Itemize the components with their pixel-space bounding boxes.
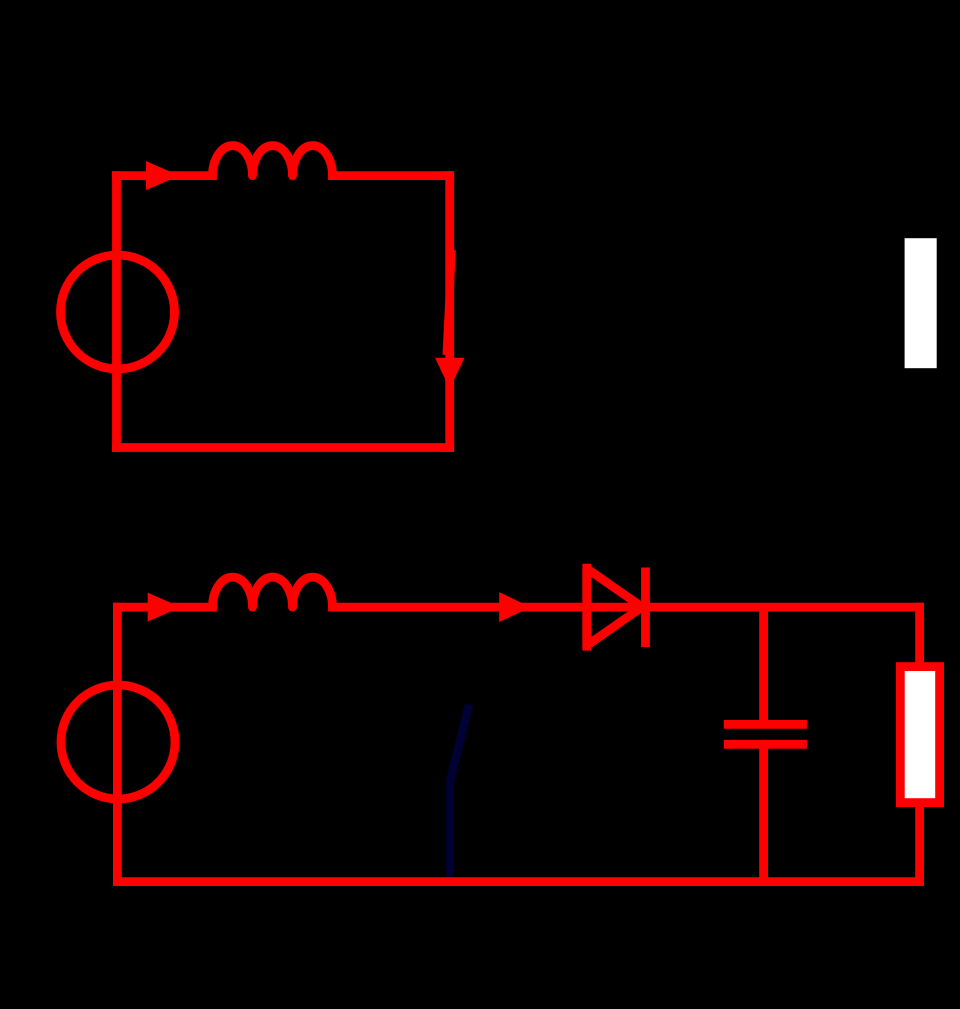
wire: bottom circuit left vertical bbox=[113, 607, 122, 882]
wire: bottom circuit right vertical (node A to resistor) bbox=[915, 607, 924, 663]
capacitor C bottom plate bbox=[724, 740, 807, 749]
voltage source Vi (top circuit) bbox=[61, 255, 175, 369]
inductor L (top circuit) bbox=[213, 146, 333, 176]
voltage source Vi (bottom circuit) bbox=[61, 685, 175, 799]
resistor R (top circuit, inactive: white body only) bbox=[905, 238, 937, 368]
wire: bottom circuit top horizontal (left of inductor) bbox=[117, 603, 212, 612]
wire: capacitor bottom lead bbox=[759, 746, 768, 882]
wire: top circuit bottom horizontal bbox=[117, 443, 450, 452]
wire: capacitor top lead bbox=[759, 607, 768, 722]
current arrow i (top circuit, top wire) bbox=[146, 161, 180, 190]
inductor L (bottom circuit) bbox=[213, 577, 333, 607]
current arrow i (bottom circuit, after source) bbox=[148, 593, 181, 622]
wire: top circuit left vertical bbox=[112, 176, 121, 448]
resistor R (bottom circuit, white body with red border) bbox=[900, 667, 939, 803]
switch S (open, dark navy blade, bottom circuit) bbox=[450, 705, 469, 882]
current arrow i (bottom circuit, before diode) bbox=[499, 592, 530, 622]
diode D cathode bar bbox=[641, 568, 650, 648]
wire: top circuit top horizontal (left of inductor) bbox=[117, 171, 213, 180]
capacitor C top plate bbox=[724, 720, 807, 729]
wire: top circuit top horizontal (right of inductor) bbox=[333, 171, 450, 180]
diode D anode bar + triangle (bottom circuit) bbox=[587, 564, 642, 651]
switch blade (closed, slightly tilted, top circuit) bbox=[447, 250, 452, 355]
wire: top circuit right vertical (switch branch, closed) bbox=[445, 176, 454, 448]
wire: bottom circuit bottom horizontal bbox=[117, 877, 919, 886]
wire: bottom circuit top horizontal (inductor to node A) bbox=[333, 603, 920, 612]
current arrow head (top circuit, switch branch, pointing down) bbox=[435, 358, 465, 389]
wire: resistor bottom lead bbox=[915, 806, 924, 882]
